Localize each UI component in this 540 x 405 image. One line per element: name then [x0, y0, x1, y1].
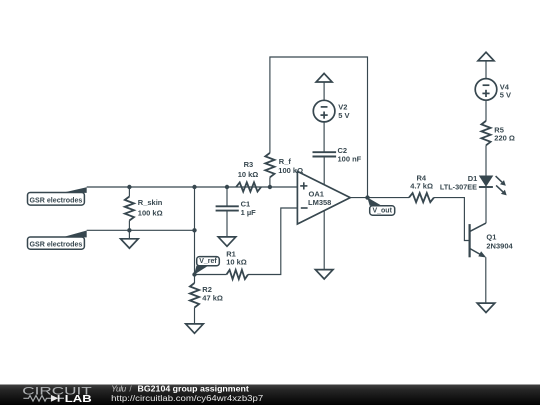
svg-text:100 kΩ: 100 kΩ	[138, 209, 163, 218]
svg-text:Q1: Q1	[486, 233, 496, 242]
svg-text:BG2104 group assignment: BG2104 group assignment	[138, 383, 250, 393]
svg-text:4.7 kΩ: 4.7 kΩ	[410, 181, 433, 190]
svg-text:R_f: R_f	[279, 157, 292, 166]
svg-text:R_skin: R_skin	[138, 198, 163, 207]
svg-text:GSR electrodes: GSR electrodes	[30, 197, 83, 205]
svg-text:10 kΩ: 10 kΩ	[226, 258, 247, 267]
svg-text:5 V: 5 V	[500, 90, 511, 99]
svg-text:GSR electrodes: GSR electrodes	[30, 241, 83, 249]
svg-text:R3: R3	[244, 160, 254, 169]
svg-text:V_out: V_out	[372, 208, 392, 215]
svg-text:http://circuitlab.com/cy64wr4x: http://circuitlab.com/cy64wr4xzb3p7	[111, 393, 263, 403]
svg-text:100 nF: 100 nF	[338, 154, 362, 163]
svg-text:LTL-307EE: LTL-307EE	[440, 182, 477, 191]
svg-text:LAB: LAB	[65, 394, 92, 405]
svg-text:V_ref: V_ref	[199, 258, 217, 265]
svg-text:10 kΩ: 10 kΩ	[238, 170, 259, 179]
svg-text:1 µF: 1 µF	[241, 208, 257, 217]
svg-text:2N3904: 2N3904	[486, 242, 513, 251]
svg-text:OA1: OA1	[309, 189, 324, 198]
svg-text:220 Ω: 220 Ω	[494, 134, 515, 143]
svg-text:5 V: 5 V	[338, 111, 349, 120]
svg-text:Yulu: Yulu	[111, 384, 126, 393]
svg-text:100 kΩ: 100 kΩ	[278, 166, 303, 175]
svg-text:LM358: LM358	[308, 198, 331, 207]
svg-text:47 kΩ: 47 kΩ	[202, 294, 223, 303]
